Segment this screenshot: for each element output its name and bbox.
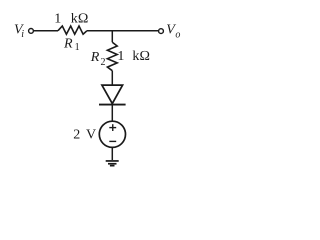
svg-text:2 V: 2 V [73,128,96,143]
svg-text:R: R [90,50,100,65]
svg-text:2: 2 [101,57,106,68]
svg-text:1 kΩ: 1 kΩ [117,49,150,64]
svg-text:R: R [63,37,73,52]
svg-text:1 kΩ: 1 kΩ [54,12,88,27]
svg-text:o: o [175,30,180,41]
svg-text:i: i [21,29,24,40]
svg-text:1: 1 [75,42,80,53]
